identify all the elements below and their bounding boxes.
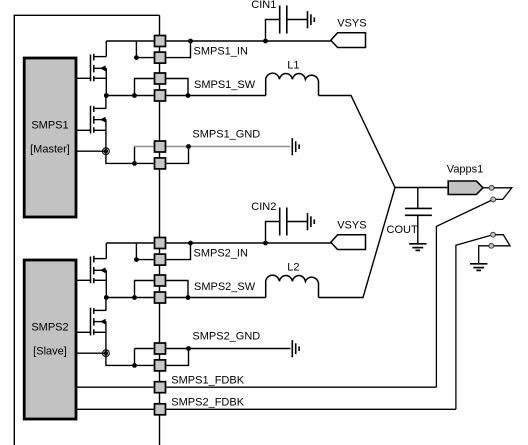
wire low-side drain riser to SW node — [105, 96, 107, 109]
wire gate drive high-side from SMPS1 — [76, 77, 91, 79]
svg-text:SMPS2_IN: SMPS2_IN — [194, 248, 248, 260]
svg-text:L2: L2 — [287, 262, 299, 274]
wire CIN1 to ground — [287, 19, 308, 21]
capacitor CIN1 — [280, 6, 287, 34]
wire J2 to SMPS2_FDBK sense — [456, 235, 491, 409]
pad SMPS2_SW upper — [155, 275, 166, 286]
wire drain riser to SMPS2_IN rail — [105, 243, 107, 259]
transistor Q1 channel segments — [93, 54, 95, 82]
svg-text:SMPS1_FDBK: SMPS1_FDBK — [171, 374, 244, 386]
wire SMPS1_SW rail to inductor — [166, 95, 265, 97]
node SW junction dot — [104, 295, 109, 300]
pad SMPS2_SW lower — [155, 292, 166, 303]
transistor Q2 body arrow — [100, 117, 106, 123]
wire SMPS1_IN rail to pad — [106, 40, 153, 42]
wire gate drive high-side from SMPS2 — [76, 279, 91, 281]
transistor Q3 channel segments — [93, 256, 95, 283]
svg-text:SMPS1: SMPS1 — [31, 120, 68, 132]
svg-text:SMPS2: SMPS2 — [31, 322, 68, 334]
wire GND lower pad link — [166, 147, 188, 164]
ground J2 gnd — [470, 264, 487, 271]
wire SMPS2_SW rail to pads — [106, 297, 153, 299]
IC block SMPS1 (Master) — [24, 58, 76, 217]
wire SMPS1_GND to ground symbol — [166, 146, 290, 148]
svg-text:Vapps1: Vapps1 — [447, 164, 484, 176]
pad SMPS1_IN upper — [155, 36, 166, 47]
transistor Q3 body arrow — [100, 267, 106, 273]
node SW junction dot — [104, 93, 109, 98]
wire SMPS2_FDBK to sense riser — [166, 408, 456, 410]
wire CIN2 riser — [266, 222, 280, 244]
wire SMPS1_IN tap to lower pad — [136, 41, 153, 58]
wire J1 to SMPS1_FDBK sense — [436, 201, 491, 388]
transistor Q1 source stub — [94, 77, 107, 79]
wire SMPS1_SW tap to upper pad — [135, 79, 154, 96]
wire SMPS1_GND left segment — [135, 146, 154, 148]
transistor Q4 source stub — [94, 331, 107, 333]
junction dot CIN2 — [263, 241, 268, 246]
pad SMPS1_GND upper — [155, 141, 166, 152]
transistor Q1 body stub — [94, 67, 107, 69]
wire Vapps1 tip to jumper — [483, 187, 489, 189]
svg-text:SMPS2_SW: SMPS2_SW — [194, 281, 256, 293]
svg-text:L1: L1 — [287, 60, 299, 72]
junction dot IN right — [188, 39, 193, 44]
wire SW upper pad link — [166, 79, 188, 96]
svg-text:SMPS1_GND: SMPS1_GND — [192, 129, 260, 141]
transistor Q4 body stub — [94, 321, 107, 323]
pad SMPS1_FDBK — [155, 382, 166, 393]
transistor Q3 source stub — [94, 279, 107, 281]
transistor Q4 body arrow — [100, 319, 106, 325]
node circled junction — [103, 148, 110, 155]
ground CIN1 gnd — [308, 11, 315, 28]
wire source to switch node — [105, 270, 107, 297]
wire L2 to output node diagonal — [319, 188, 396, 298]
connector VSYS (SMPS1 input) — [331, 33, 366, 48]
transistor Q1 body arrow — [100, 65, 106, 71]
transistor Q2 gate plate — [90, 106, 92, 134]
transistor Q3 body stub — [94, 269, 107, 271]
transistor Q2 body stub — [94, 119, 107, 121]
transistor Q4 channel segments — [93, 308, 95, 335]
wire SMPS2_SW rail to inductor — [166, 297, 265, 299]
transistor Q1 drain stub — [94, 56, 107, 58]
svg-text:[Master]: [Master] — [30, 143, 70, 155]
wire gate drive low-side from SMPS1 — [76, 129, 91, 131]
junction dot IN right — [188, 241, 193, 246]
wire gate drive low-side from SMPS2 — [76, 331, 91, 333]
transistor Q3 drain stub — [94, 258, 107, 260]
inductor L2 — [266, 275, 319, 297]
junction dot IN tap — [134, 55, 139, 60]
connector Vapps1 output — [448, 181, 483, 195]
wire SMPS2_IN rail right to VSYS — [166, 242, 330, 244]
pad SMPS2_GND upper — [155, 343, 166, 354]
wire jumper J1 link — [494, 188, 512, 200]
jumper J1 pin 2 — [491, 197, 496, 202]
transistor Q3 gate plate — [90, 257, 92, 284]
wire SMPS2_GND to ground symbol — [166, 348, 290, 350]
wire IN lower pad link — [166, 243, 190, 260]
capacitor COUT riser — [417, 188, 419, 209]
junction dot GND tap — [132, 161, 137, 166]
wire L1 to output node diagonal — [319, 96, 396, 188]
wire ground leg down — [106, 151, 154, 163]
svg-text:VSYS: VSYS — [337, 220, 366, 232]
IC block SMPS2 (Slave) — [24, 260, 76, 419]
wire SMPS1_IN rail right to VSYS — [166, 40, 330, 42]
junction dot SW tap — [132, 295, 137, 300]
capacitor COUT — [405, 208, 432, 215]
svg-text:COUT: COUT — [387, 224, 418, 236]
pad SMPS1_GND lower — [155, 158, 166, 169]
pad SMPS1_SW upper — [155, 73, 166, 84]
transistor Q2 source stub — [94, 129, 107, 131]
transistor Q4 gate plate — [90, 308, 92, 336]
svg-text:VSYS: VSYS — [337, 18, 366, 30]
junction dot GND right — [186, 144, 191, 149]
wire SMPS2_IN rail to pad — [106, 242, 153, 244]
wire CIN1 riser — [266, 20, 280, 42]
ground COUT gnd — [409, 244, 426, 251]
wire COUT to ground — [417, 215, 419, 244]
wire low-side source down — [105, 120, 107, 152]
connector VSYS (SMPS2 input) — [331, 235, 366, 250]
pad SMPS2_FDBK — [155, 404, 166, 415]
wire source to switch node — [105, 68, 107, 95]
junction dot GND right — [186, 346, 191, 351]
wire SMPS2_GND left segment — [135, 348, 154, 350]
wire SMPS1_FDBK from block — [76, 386, 154, 388]
junction dot SW tap — [132, 93, 137, 98]
junction dot CIN1 — [263, 39, 268, 44]
wire CIN2 to ground — [287, 221, 308, 223]
svg-text:SMPS2_FDBK: SMPS2_FDBK — [171, 397, 244, 409]
jumper J2 pin 1 — [491, 232, 496, 237]
wire ground leg down — [106, 353, 154, 365]
transistor Q1 gate plate — [90, 55, 92, 82]
wire central pad column — [159, 15, 161, 445]
capacitor CIN2 — [280, 208, 287, 236]
junction dot SW right — [186, 93, 191, 98]
pad SMPS2_GND lower — [155, 360, 166, 371]
wire low-side source down — [105, 322, 107, 354]
wire J2 pin 2 to ground — [479, 246, 489, 264]
wire GND lower pad link — [166, 349, 188, 366]
transistor Q2 drain stub — [94, 107, 107, 109]
transistor Q2 channel segments — [93, 106, 95, 133]
ground SMPS1_GND — [292, 138, 299, 155]
wire drain riser to SMPS1_IN rail — [105, 41, 107, 57]
svg-text:SMPS1_SW: SMPS1_SW — [194, 79, 256, 91]
pad SMPS2_IN lower — [155, 254, 166, 265]
ground SMPS2_GND — [292, 340, 299, 357]
wire output node to Vapps1 — [395, 187, 448, 189]
wire SMPS2_IN tap to lower pad — [136, 243, 153, 260]
wire SMPS2_GND tap vertical — [134, 349, 136, 366]
wire source sense from SMPS1 — [76, 150, 106, 152]
wire SW upper pad link — [166, 281, 188, 298]
jumper J1 pin 1 — [489, 185, 494, 190]
wire SMPS2_SW tap to upper pad — [135, 281, 154, 298]
pad SMPS2_IN upper — [155, 238, 166, 249]
node circled junction — [103, 350, 110, 357]
junction dot GND tap — [132, 363, 137, 368]
transistor Q4 drain stub — [94, 309, 107, 311]
inductor L1 — [266, 73, 319, 95]
svg-text:[Slave]: [Slave] — [33, 345, 67, 357]
junction dot SW right — [186, 295, 191, 300]
wire SMPS1_GND tap vertical — [134, 147, 136, 164]
wire low-side drain riser to SW node — [105, 298, 107, 311]
wire SMPS1_FDBK to sense riser — [166, 386, 436, 388]
wire source sense from SMPS2 — [76, 352, 106, 354]
jumper J2 pin 2 — [489, 243, 494, 248]
junction dot IN tap — [134, 257, 139, 262]
svg-text:CIN1: CIN1 — [251, 0, 276, 11]
wire SMPS2_FDBK from block — [76, 408, 154, 410]
wire IN lower pad link — [166, 41, 190, 58]
svg-text:CIN2: CIN2 — [251, 201, 276, 213]
wire jumper J2 link — [494, 235, 510, 246]
pad SMPS1_SW lower — [155, 90, 166, 101]
svg-text:SMPS2_GND: SMPS2_GND — [192, 331, 260, 343]
outer border wire (top-left loop) — [14, 15, 159, 445]
ground CIN2 gnd — [308, 213, 315, 230]
wire SMPS1_SW rail to pads — [106, 95, 153, 97]
svg-text:SMPS1_IN: SMPS1_IN — [194, 46, 248, 58]
pad SMPS1_IN lower — [155, 52, 166, 63]
